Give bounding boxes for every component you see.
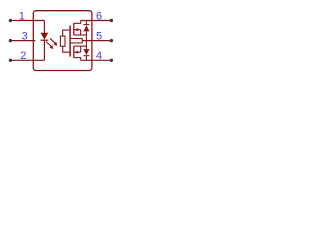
- body diode D3 anode lead: [85, 46, 87, 49]
- Q1 source wire: [74, 34, 87, 36]
- svg-text:2: 2: [20, 50, 26, 62]
- Q1 drain wire to pin 6: [74, 21, 81, 24]
- LED D1 cathode wire: [43, 40, 45, 60]
- gate-source network vertical: [81, 39, 83, 43]
- gate-source network lower link: [70, 42, 82, 44]
- svg-text:4: 4: [96, 50, 102, 62]
- LED D1 triangle: [41, 33, 49, 40]
- shared gate bar: [69, 26, 71, 57]
- svg-text:6: 6: [96, 10, 102, 22]
- photodiode top wire to gate: [63, 30, 70, 36]
- pin 5 terminal: [110, 39, 113, 42]
- body diode D2 cathode lead: [85, 21, 87, 25]
- pin 3 wire: [11, 40, 35, 42]
- body diode D2 cathode bar: [83, 24, 89, 26]
- relay body U1: [33, 11, 92, 71]
- pin 2 terminal: [9, 59, 12, 62]
- LED D1 cathode bar: [41, 39, 49, 41]
- pin 6 terminal: [110, 19, 113, 22]
- pin 2 wire: [11, 59, 44, 61]
- pin 1 terminal: [9, 19, 12, 22]
- pin 3 terminal: [9, 39, 12, 42]
- Q1 source arrow: [74, 28, 80, 35]
- body diode D3 cathode lead: [85, 56, 87, 61]
- pin 4 terminal: [110, 59, 113, 62]
- svg-text:3: 3: [22, 30, 28, 42]
- gate-source network upper link: [70, 38, 82, 40]
- Q2 source arrow: [74, 46, 80, 54]
- common source vertical: [85, 35, 87, 46]
- photodiode bottom wire to gate: [63, 46, 70, 52]
- Q2 source wire: [74, 45, 87, 47]
- body diode D3 cathode bar: [83, 55, 89, 57]
- LED D1 anode wire: [43, 21, 45, 34]
- MOSFET Q2 channel bar: [73, 46, 75, 58]
- Q2 drain wire to pin 4: [74, 58, 81, 61]
- photodiode array box PD1: [60, 36, 65, 46]
- LED emission arrow 1: [46, 42, 53, 50]
- pin 4 wire: [81, 59, 111, 61]
- pin 1 wire: [11, 20, 44, 22]
- body diode D2 anode lead: [85, 31, 87, 35]
- MOSFET Q1 channel bar: [73, 23, 75, 35]
- LED emission arrow 2: [50, 38, 57, 46]
- pin 5 wire: [82, 40, 111, 42]
- body diode D2 triangle: [83, 25, 89, 31]
- pin 6 wire: [81, 20, 111, 22]
- body diode D3 triangle: [83, 49, 89, 55]
- svg-text:1: 1: [19, 10, 25, 22]
- svg-text:5: 5: [96, 30, 102, 42]
